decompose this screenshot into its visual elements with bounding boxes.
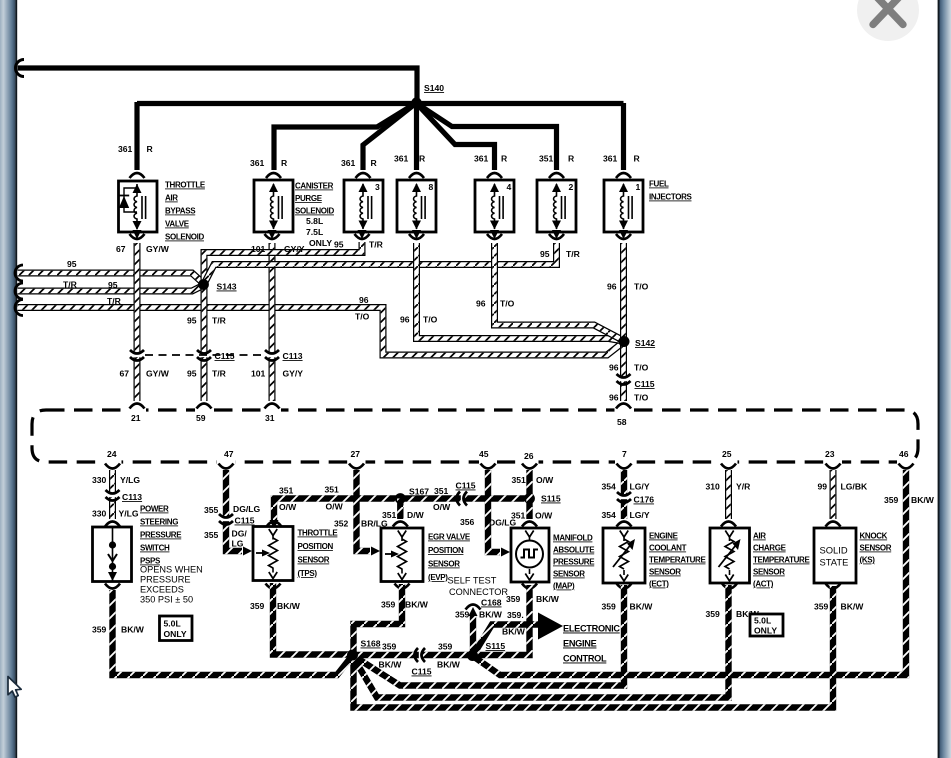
- svg-text:AIR: AIR: [753, 532, 766, 541]
- svg-text:VALVE: VALVE: [165, 220, 190, 229]
- svg-text:355: 355: [204, 530, 219, 540]
- svg-text:R: R: [419, 154, 426, 164]
- 5.0L only box left: [160, 616, 193, 641]
- svg-text:SOLENOID: SOLENOID: [165, 233, 205, 242]
- wire to injector 8: [414, 103, 419, 170]
- svg-text:DG/LG: DG/LG: [233, 504, 261, 514]
- svg-text:S143: S143: [217, 282, 237, 292]
- svg-text:(KS): (KS): [860, 556, 876, 565]
- svg-text:LG/BK: LG/BK: [841, 482, 869, 492]
- svg-text:T/O: T/O: [634, 282, 649, 292]
- svg-text:26: 26: [524, 451, 534, 461]
- air charge temperature sensor box: [710, 528, 750, 583]
- mouse cursor: [8, 677, 21, 698]
- svg-text:SWITCH: SWITCH: [140, 544, 170, 553]
- right window edge strip: [938, 0, 940, 758]
- svg-text:361: 361: [603, 154, 618, 164]
- svg-text:POWER: POWER: [140, 505, 169, 514]
- svg-text:POSITION: POSITION: [298, 542, 334, 551]
- injector 3 box: [344, 180, 383, 232]
- svg-text:S115: S115: [541, 494, 561, 504]
- svg-text:24: 24: [107, 449, 117, 459]
- dashed connector grouping line: [145, 354, 264, 356]
- svg-text:7: 7: [622, 449, 627, 459]
- svg-text:5.0L: 5.0L: [754, 616, 771, 626]
- svg-text:R: R: [634, 154, 641, 164]
- svg-text:S: S: [544, 619, 553, 634]
- wire S168 to S115 359 BK/W and MAP ground: [353, 585, 530, 655]
- connector cup below canister: [268, 230, 277, 239]
- wire 95 T/R from off-page lower: [18, 286, 204, 292]
- wire TPS ground 359 BK/W: [273, 583, 349, 655]
- svg-text:25: 25: [722, 449, 732, 459]
- connector C115 below S142: [619, 378, 628, 381]
- wire S167 to EGR top 351 D/W: [397, 499, 403, 520]
- svg-text:67: 67: [116, 244, 126, 254]
- svg-text:330: 330: [92, 475, 107, 485]
- svg-text:C113: C113: [283, 351, 303, 361]
- svg-text:361: 361: [250, 158, 265, 168]
- svg-text:COOLANT: COOLANT: [649, 544, 687, 553]
- svg-text:SENSOR: SENSOR: [298, 556, 330, 565]
- throttle air bypass valve solenoid box: [119, 181, 158, 232]
- svg-text:GY/Y: GY/Y: [284, 244, 305, 254]
- svg-text:SENSOR: SENSOR: [553, 570, 585, 579]
- svg-text:67: 67: [120, 369, 130, 379]
- svg-text:T/R: T/R: [212, 316, 227, 326]
- svg-text:31: 31: [265, 413, 275, 423]
- svg-text:TEMPERATURE: TEMPERATURE: [649, 556, 706, 565]
- svg-text:ENGINE: ENGINE: [649, 532, 679, 541]
- svg-text:95: 95: [187, 316, 197, 326]
- svg-text:R: R: [501, 154, 508, 164]
- off-page hook wire 96 T/O: [15, 300, 23, 316]
- injector 4 box: [475, 180, 514, 232]
- svg-text:58: 58: [617, 417, 627, 427]
- svg-text:ONLY: ONLY: [164, 629, 187, 639]
- svg-text:C168: C168: [481, 598, 502, 608]
- svg-text:SENSOR: SENSOR: [649, 568, 681, 577]
- svg-text:T/O: T/O: [355, 312, 370, 322]
- svg-text:351: 351: [325, 485, 340, 495]
- svg-text:BK/W: BK/W: [379, 660, 403, 670]
- svg-text:359: 359: [814, 602, 829, 612]
- svg-text:O/W: O/W: [536, 475, 554, 485]
- svg-text:THROTTLE: THROTTLE: [298, 529, 339, 538]
- svg-text:GY/W: GY/W: [146, 369, 170, 379]
- svg-text:OPENS WHEN: OPENS WHEN: [140, 565, 203, 575]
- svg-text:BK/W: BK/W: [405, 600, 429, 610]
- svg-text:4: 4: [507, 182, 512, 192]
- svg-text:359: 359: [92, 625, 107, 635]
- svg-text:BK/W: BK/W: [121, 625, 145, 635]
- close button: [857, 0, 919, 41]
- cup at MAP top: [522, 522, 537, 527]
- svg-text:SENSOR: SENSOR: [753, 568, 785, 577]
- bus pin 45 gap and cup: [479, 458, 497, 466]
- splice S115 lower: [467, 650, 478, 661]
- svg-text:D/W: D/W: [407, 510, 425, 520]
- bus pin 46 gap and cup: [897, 458, 915, 466]
- svg-text:21: 21: [131, 413, 141, 423]
- svg-text:ENGINE: ENGINE: [563, 639, 597, 649]
- svg-text:23: 23: [825, 449, 835, 459]
- svg-text:C115: C115: [235, 516, 255, 526]
- connector cup below inj4: [490, 230, 499, 239]
- connector C115 on TAB ground: [133, 354, 142, 357]
- wire S115 to EEC arrow: [473, 625, 539, 656]
- svg-text:ABSOLUTE: ABSOLUTE: [553, 546, 595, 555]
- bus pin 23 gap and cup: [824, 458, 842, 466]
- splice S167: [395, 493, 406, 504]
- svg-text:BYPASS: BYPASS: [165, 207, 196, 216]
- svg-text:1: 1: [636, 182, 641, 192]
- svg-text:BK/W: BK/W: [536, 594, 560, 604]
- svg-text:BK/W: BK/W: [479, 610, 503, 620]
- canister purge solenoid box: [254, 180, 293, 232]
- bus pin 24 gap and cup: [104, 458, 122, 466]
- svg-text:96: 96: [609, 363, 619, 373]
- bus pin 26 gap and cup: [521, 458, 539, 466]
- svg-text:361: 361: [394, 154, 409, 164]
- svg-text:T/O: T/O: [423, 315, 438, 325]
- svg-text:47: 47: [224, 449, 234, 459]
- svg-text:3: 3: [375, 182, 380, 192]
- svg-text:EXCEEDS: EXCEEDS: [140, 585, 184, 595]
- svg-text:DG/LG: DG/LG: [489, 518, 517, 528]
- svg-text:LG/Y: LG/Y: [630, 482, 650, 492]
- wire drop to throttle air bypass solenoid: [134, 102, 139, 170]
- svg-text:7.5L: 7.5L: [306, 227, 323, 237]
- bus pin 31 gap and cup: [263, 406, 281, 414]
- svg-text:TEMPERATURE: TEMPERATURE: [753, 556, 810, 565]
- wire ECT ground 359 BK/W: [355, 585, 625, 686]
- svg-text:INJECTORS: INJECTORS: [649, 193, 693, 202]
- EGR valve position sensor box: [381, 528, 423, 582]
- svg-text:96: 96: [607, 282, 617, 292]
- bus pin 58 gap and cup: [615, 406, 633, 414]
- off-page hook left end of main feed: [16, 60, 24, 77]
- wire ACT ground 359 BK/W: [354, 585, 729, 698]
- connector cup above inj1: [616, 173, 631, 178]
- svg-text:R: R: [568, 154, 575, 164]
- solid state box: [814, 528, 856, 583]
- svg-text:45: 45: [479, 449, 489, 459]
- svg-text:351: 351: [512, 475, 527, 485]
- connector cup below EGR: [395, 584, 410, 589]
- svg-text:359: 359: [506, 594, 521, 604]
- wire canister ground 101 GY/Y: [269, 243, 276, 401]
- bus pin 27 gap and cup: [348, 458, 366, 466]
- bus pin 59 gap and cup: [195, 406, 213, 414]
- svg-text:SENSOR: SENSOR: [428, 560, 460, 569]
- svg-text:46: 46: [899, 449, 909, 459]
- svg-text:LG: LG: [232, 539, 244, 549]
- connector cup below inj3: [358, 230, 367, 239]
- svg-text:354: 354: [602, 482, 617, 492]
- bus pin 47 gap and cup: [217, 458, 235, 466]
- svg-text:351: 351: [434, 486, 449, 496]
- wire S143 riser / inj3 return: [204, 242, 362, 282]
- svg-text:359: 359: [884, 495, 899, 505]
- svg-text:359.: 359.: [507, 610, 524, 620]
- svg-text:27: 27: [351, 449, 361, 459]
- injector 8 box: [397, 180, 436, 232]
- connector cup below TPS: [266, 584, 281, 589]
- svg-text:SENSOR: SENSOR: [860, 544, 892, 553]
- wire 96 T/O from off-page to S142: [18, 308, 624, 356]
- injector 1 box: [604, 180, 643, 232]
- svg-text:350 PSI ± 50: 350 PSI ± 50: [140, 595, 193, 605]
- splice S140: [411, 97, 421, 107]
- off-page hook wire 95 T/R lower: [15, 283, 23, 299]
- svg-text:8: 8: [429, 182, 434, 192]
- wire 95 T/R from off-page upper: [18, 273, 204, 283]
- svg-text:BK/W: BK/W: [502, 627, 526, 637]
- svg-text:MANIFOLD: MANIFOLD: [553, 534, 593, 543]
- svg-text:Y/R: Y/R: [736, 482, 751, 492]
- bus pin 7 gap and cup: [615, 458, 633, 466]
- wire drop to injector 1: [621, 103, 626, 170]
- wire pin23 to solid state 99 LG/BK: [830, 470, 837, 519]
- off-page hook wire 95 T/R upper: [15, 265, 23, 281]
- svg-text:PRESSURE: PRESSURE: [140, 575, 191, 585]
- svg-text:LG/Y: LG/Y: [630, 510, 650, 520]
- svg-text:5.8L: 5.8L: [306, 216, 323, 226]
- svg-text:359: 359: [602, 602, 617, 612]
- svg-text:359: 359: [455, 610, 470, 620]
- svg-text:GY/Y: GY/Y: [283, 369, 304, 379]
- wire inj1 return / S142 drop 96 T/O: [620, 243, 627, 401]
- svg-text:359: 359: [438, 642, 453, 652]
- svg-text:T/R: T/R: [107, 296, 122, 306]
- svg-text:95: 95: [187, 369, 197, 379]
- svg-text:356: 356: [460, 517, 475, 527]
- svg-text:BK/W: BK/W: [437, 660, 461, 670]
- connector cup below ACT: [722, 584, 737, 589]
- svg-text:59: 59: [196, 413, 206, 423]
- svg-text:C115: C115: [412, 667, 432, 677]
- svg-text:S140: S140: [424, 83, 444, 93]
- svg-text:O/W: O/W: [279, 502, 297, 512]
- svg-text:CONNECTOR: CONNECTOR: [449, 587, 508, 597]
- svg-text:CANISTER: CANISTER: [295, 182, 334, 191]
- svg-text:96: 96: [359, 295, 369, 305]
- manifold absolute pressure sensor box: [511, 528, 549, 582]
- svg-text:C176: C176: [634, 495, 655, 505]
- svg-text:(MAP): (MAP): [553, 582, 575, 591]
- svg-text:361: 361: [341, 158, 356, 168]
- 5.0L only box right: [750, 614, 783, 636]
- connector cup above canister: [266, 173, 281, 178]
- wire inj8 return 96 T/O: [417, 243, 624, 341]
- wire pin47 to TPS wiper 355 DG/LG: [226, 470, 242, 551]
- svg-text:KNOCK: KNOCK: [860, 532, 888, 541]
- svg-text:S115: S115: [486, 641, 506, 651]
- svg-text:T/O: T/O: [634, 363, 649, 373]
- svg-text:S142: S142: [635, 338, 655, 348]
- svg-text:352: 352: [334, 519, 349, 529]
- svg-text:PRESSURE: PRESSURE: [140, 531, 182, 540]
- cup at EGR top: [393, 522, 408, 527]
- wire to injector 4: [417, 104, 495, 170]
- connector cup below ECT: [617, 584, 632, 589]
- svg-text:95: 95: [67, 259, 77, 269]
- svg-text:S168: S168: [361, 639, 381, 649]
- svg-text:T/R: T/R: [566, 249, 581, 259]
- svg-text:C115: C115: [456, 481, 476, 491]
- svg-text:GY/W: GY/W: [146, 244, 170, 254]
- svg-text:CONTROL: CONTROL: [563, 654, 607, 664]
- svg-text:359: 359: [381, 600, 396, 610]
- connector cup above inj4: [487, 173, 502, 178]
- arrow into MAP left: [501, 548, 510, 557]
- svg-text:T/R: T/R: [369, 240, 384, 250]
- svg-text:STEERING: STEERING: [140, 518, 178, 527]
- svg-text:Y/LG: Y/LG: [120, 475, 140, 485]
- wire to injector 2: [417, 104, 557, 171]
- svg-text:R: R: [281, 158, 288, 168]
- bus pin 25 gap and cup: [720, 458, 738, 466]
- svg-text:359: 359: [706, 609, 721, 619]
- svg-text:O/W: O/W: [326, 502, 344, 512]
- connector cup above inj8: [409, 173, 424, 178]
- svg-text:95: 95: [334, 240, 344, 250]
- svg-text:T/R: T/R: [212, 369, 227, 379]
- svg-text:(TPS): (TPS): [298, 569, 318, 578]
- connector C113 on PSPS feed: [108, 494, 117, 497]
- svg-text:SOLID: SOLID: [820, 545, 848, 556]
- wire 351 O/W net: [274, 499, 530, 525]
- svg-text:96: 96: [476, 299, 486, 309]
- connector cup above inj2: [549, 173, 564, 178]
- svg-text:R: R: [371, 158, 378, 168]
- wire pin45 to MAP 356 DG/LG: [488, 470, 500, 552]
- svg-text:BK/W: BK/W: [841, 602, 865, 612]
- svg-text:C115: C115: [635, 379, 655, 389]
- svg-text:CHARGE: CHARGE: [753, 544, 787, 553]
- svg-text:DG/: DG/: [232, 529, 248, 539]
- arrow into EGR left: [371, 547, 380, 556]
- power steering pressure switch box: [93, 527, 132, 582]
- svg-text:351: 351: [279, 486, 294, 496]
- svg-text:359: 359: [382, 642, 397, 652]
- svg-text:101: 101: [251, 244, 266, 254]
- svg-text:96: 96: [609, 393, 619, 403]
- svg-text:(ACT): (ACT): [753, 580, 774, 589]
- svg-text:99: 99: [818, 482, 828, 492]
- connector C115 on pin47 wire: [222, 518, 231, 521]
- svg-text:2: 2: [569, 182, 574, 192]
- wire inj2 return 95 T/R: [205, 243, 557, 283]
- dashed bus rounded rectangle: [32, 410, 918, 462]
- svg-text:361: 361: [118, 144, 133, 154]
- svg-text:POSITION: POSITION: [428, 546, 464, 555]
- wire main feed to S140: [18, 68, 418, 99]
- svg-text:5.0L: 5.0L: [164, 619, 181, 629]
- svg-text:O/W: O/W: [433, 502, 451, 512]
- svg-text:R: R: [147, 144, 154, 154]
- svg-text:BK/W: BK/W: [911, 495, 935, 505]
- svg-text:PRESSURE: PRESSURE: [553, 558, 595, 567]
- svg-text:T/O: T/O: [634, 393, 649, 403]
- splice S168: [347, 650, 358, 661]
- svg-text:95: 95: [540, 249, 550, 259]
- wire inj4 return 96 T/O: [495, 243, 623, 340]
- connector cup below solid state: [826, 584, 841, 589]
- svg-text:PURGE: PURGE: [295, 194, 323, 203]
- svg-text:351: 351: [539, 154, 554, 164]
- splice S115 upper: [524, 493, 535, 504]
- connector cup below inj8: [412, 230, 421, 239]
- svg-text:SOLENOID: SOLENOID: [295, 207, 335, 216]
- arrow into TPS left: [243, 547, 252, 556]
- svg-text:C113: C113: [122, 492, 142, 502]
- cup at ACT top: [721, 522, 736, 527]
- connector C115 bottom: [419, 651, 422, 660]
- svg-text:Y/LG: Y/LG: [119, 509, 139, 519]
- wire pin7 to ECT 354 LG/Y: [621, 470, 627, 519]
- connector cup below inj2: [552, 230, 561, 239]
- wire to injector 3: [363, 104, 415, 170]
- wire pin24 to PSPS 330 Y/LG: [109, 470, 116, 519]
- connector C113 on canister ground: [268, 354, 277, 357]
- connector cup above TAB: [130, 173, 145, 178]
- svg-text:361: 361: [474, 154, 489, 164]
- splice S142: [619, 336, 630, 347]
- wire to canister purge solenoid: [274, 103, 416, 170]
- electronic engine control arrow: [538, 613, 563, 640]
- svg-text:SELF TEST: SELF TEST: [448, 576, 497, 586]
- splice S143: [198, 279, 209, 290]
- connector cup below TAB: [133, 230, 142, 239]
- injector 2 box: [537, 180, 576, 232]
- svg-text:C115: C115: [215, 351, 235, 361]
- wire self test connector pigtail 359 BK/W: [470, 614, 476, 652]
- svg-text:330: 330: [92, 509, 107, 519]
- wire pin27 to EGR 352 BR/LG: [357, 470, 371, 551]
- connector cup below MAP: [522, 584, 537, 589]
- svg-text:355: 355: [204, 505, 219, 515]
- svg-text:EGR VALVE: EGR VALVE: [428, 533, 471, 542]
- cup at self test connector: [466, 605, 481, 610]
- wire PSPS ground 359 BK/W: [113, 590, 353, 675]
- connector C115 on S143 drop: [200, 354, 209, 357]
- connector C115 on 351 net: [461, 494, 464, 503]
- svg-text:359: 359: [250, 601, 265, 611]
- svg-text:STATE: STATE: [820, 557, 849, 568]
- engine coolant temperature sensor box: [603, 528, 645, 583]
- wire fan crossbar at S140 level: [137, 101, 624, 106]
- svg-text:96: 96: [400, 315, 410, 325]
- svg-text:ONLY: ONLY: [754, 626, 777, 636]
- wire TAB ground 67 GY/W: [134, 243, 141, 401]
- svg-text:THROTTLE: THROTTLE: [165, 181, 206, 190]
- bus pin 21 gap and cup: [128, 406, 146, 414]
- svg-text:FUEL: FUEL: [649, 180, 669, 189]
- svg-text:BK/W: BK/W: [630, 602, 654, 612]
- wire pin46 ground 359 BK/W: [474, 470, 907, 675]
- wire pin25 to ACT 310 Y/R: [725, 470, 732, 519]
- cup at PSPS top: [105, 522, 120, 527]
- svg-text:T/O: T/O: [500, 299, 515, 309]
- connector C176 on pin7 wire: [620, 496, 629, 499]
- svg-text:101: 101: [251, 369, 266, 379]
- svg-text:95: 95: [108, 280, 118, 290]
- cup at solid state top: [826, 522, 841, 527]
- svg-text:ONLY: ONLY: [309, 238, 332, 248]
- svg-text:T/R: T/R: [63, 280, 78, 290]
